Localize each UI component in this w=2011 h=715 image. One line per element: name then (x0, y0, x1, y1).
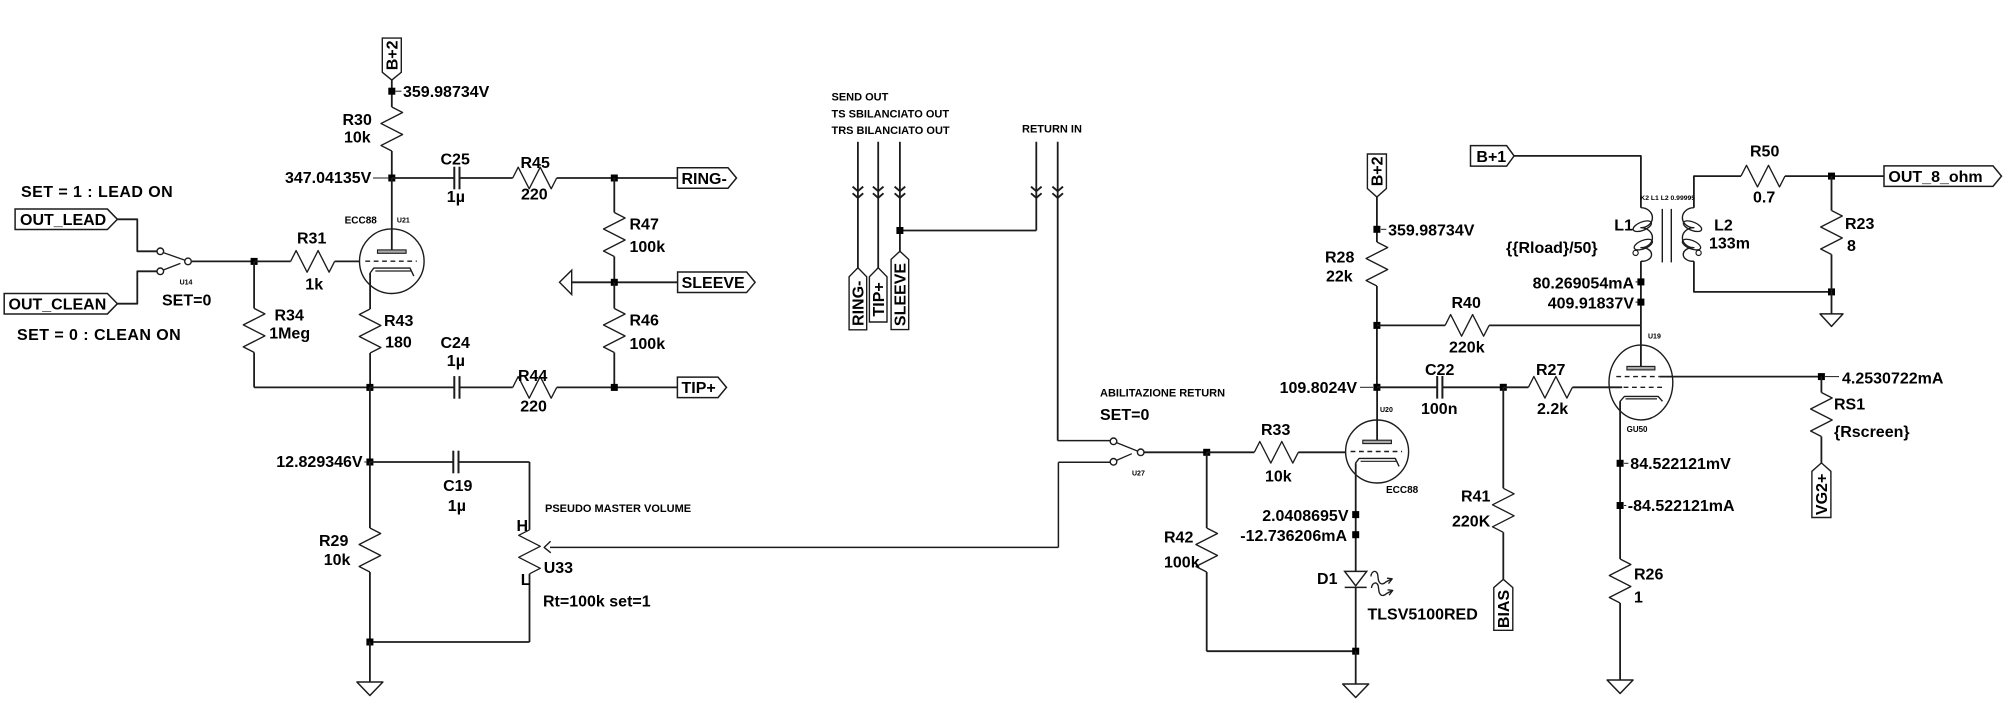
svg-text:220: 220 (521, 187, 548, 204)
svg-text:R43: R43 (384, 313, 413, 330)
svg-text:2.0408695V: 2.0408695V (1262, 508, 1349, 525)
svg-text:SET = 0 : CLEAN ON: SET = 0 : CLEAN ON (17, 327, 181, 344)
svg-text:R27: R27 (1536, 362, 1565, 379)
svg-text:VG2+: VG2+ (1814, 474, 1831, 515)
svg-text:100k: 100k (1164, 555, 1200, 572)
svg-text:R33: R33 (1261, 422, 1290, 439)
svg-text:TIP+: TIP+ (871, 282, 888, 316)
svg-text:BIAS: BIAS (1496, 590, 1513, 629)
svg-text:C19: C19 (443, 478, 472, 495)
svg-text:U19: U19 (1648, 334, 1661, 341)
svg-text:347.04135V: 347.04135V (285, 170, 372, 187)
svg-text:B+2: B+2 (1370, 156, 1387, 186)
svg-text:220K: 220K (1452, 514, 1491, 531)
svg-text:R40: R40 (1452, 295, 1481, 312)
svg-text:U21: U21 (397, 218, 410, 225)
svg-text:359.98734V: 359.98734V (403, 84, 490, 101)
svg-text:409.91837V: 409.91837V (1548, 296, 1635, 313)
svg-text:8: 8 (1847, 238, 1856, 255)
svg-text:H: H (517, 518, 529, 535)
svg-text:359.98734V: 359.98734V (1388, 222, 1475, 239)
svg-text:C22: C22 (1425, 362, 1454, 379)
svg-text:TLSV5100RED: TLSV5100RED (1368, 607, 1478, 624)
svg-text:U33: U33 (544, 560, 573, 577)
svg-text:1µ: 1µ (447, 353, 465, 370)
svg-text:TS SBILANCIATO OUT: TS SBILANCIATO OUT (832, 108, 950, 120)
svg-text:180: 180 (385, 335, 412, 352)
svg-text:U14: U14 (180, 280, 193, 287)
svg-text:10k: 10k (324, 552, 351, 569)
svg-text:84.522121mV: 84.522121mV (1630, 456, 1731, 473)
svg-text:R42: R42 (1164, 530, 1193, 547)
svg-text:RS1: RS1 (1834, 397, 1865, 414)
svg-text:PSEUDO MASTER VOLUME: PSEUDO MASTER VOLUME (545, 503, 691, 515)
svg-text:100k: 100k (630, 239, 666, 256)
svg-text:TRS BILANCIATO OUT: TRS BILANCIATO OUT (832, 125, 950, 137)
svg-text:R46: R46 (630, 313, 659, 330)
svg-text:C25: C25 (441, 152, 470, 169)
svg-text:R31: R31 (297, 231, 326, 248)
svg-text:SLEEVE: SLEEVE (682, 275, 745, 292)
svg-text:ABILITAZIONE RETURN: ABILITAZIONE RETURN (1100, 388, 1225, 400)
svg-text:R45: R45 (521, 155, 550, 172)
svg-text:L1: L1 (1614, 218, 1633, 235)
svg-text:C24: C24 (441, 335, 470, 352)
svg-text:RING-: RING- (682, 171, 727, 188)
svg-text:220k: 220k (1449, 340, 1485, 357)
svg-text:R28: R28 (1325, 250, 1354, 267)
svg-text:OUT_CLEAN: OUT_CLEAN (9, 297, 107, 314)
svg-text:OUT_8_ohm: OUT_8_ohm (1888, 169, 1982, 186)
svg-text:100n: 100n (1421, 401, 1457, 418)
svg-text:R30: R30 (343, 112, 372, 129)
svg-text:-12.736206mA: -12.736206mA (1240, 528, 1347, 545)
svg-text:0.7: 0.7 (1753, 190, 1775, 207)
svg-text:RETURN IN: RETURN IN (1022, 124, 1082, 136)
svg-text:RING-: RING- (851, 281, 868, 326)
svg-text:R44: R44 (518, 368, 547, 385)
svg-text:100k: 100k (630, 336, 666, 353)
svg-text:109.8024V: 109.8024V (1280, 380, 1358, 397)
svg-text:U27: U27 (1132, 471, 1145, 478)
svg-text:ECC88: ECC88 (1386, 485, 1419, 496)
svg-text:L2: L2 (1714, 218, 1733, 235)
svg-text:{{Rload}/50}: {{Rload}/50} (1506, 240, 1598, 257)
svg-text:1: 1 (1634, 590, 1643, 607)
svg-text:D1: D1 (1317, 571, 1338, 588)
svg-text:U20: U20 (1380, 407, 1393, 414)
svg-text:R26: R26 (1634, 567, 1663, 584)
svg-text:SLEEVE: SLEEVE (893, 263, 910, 326)
svg-text:80.269054mA: 80.269054mA (1533, 276, 1635, 293)
svg-text:-84.522121mA: -84.522121mA (1628, 498, 1735, 515)
svg-text:R47: R47 (630, 217, 659, 234)
svg-text:10k: 10k (1265, 468, 1292, 485)
svg-text:2.2k: 2.2k (1537, 401, 1568, 418)
svg-text:12.829346V: 12.829346V (276, 454, 363, 471)
svg-text:GU50: GU50 (1627, 425, 1648, 434)
svg-text:R50: R50 (1750, 144, 1779, 161)
svg-text:R41: R41 (1461, 489, 1490, 506)
svg-text:K2 L1 L2 0.99995: K2 L1 L2 0.99995 (1640, 195, 1695, 202)
svg-text:1Meg: 1Meg (269, 325, 310, 342)
svg-text:220: 220 (520, 399, 547, 416)
svg-text:{Rscreen}: {Rscreen} (1834, 424, 1910, 441)
svg-text:22k: 22k (1326, 269, 1353, 286)
svg-text:Rt=100k set=1: Rt=100k set=1 (543, 594, 651, 611)
svg-text:B+1: B+1 (1476, 149, 1506, 166)
svg-text:R29: R29 (319, 533, 348, 550)
svg-text:4.2530722mA: 4.2530722mA (1842, 370, 1944, 387)
svg-text:SET = 1 : LEAD ON: SET = 1 : LEAD ON (21, 184, 173, 201)
svg-text:1µ: 1µ (448, 498, 466, 515)
svg-text:SET=0: SET=0 (162, 293, 211, 310)
svg-text:OUT_LEAD: OUT_LEAD (20, 212, 106, 229)
svg-text:ECC88: ECC88 (345, 216, 378, 227)
svg-text:1k: 1k (305, 277, 323, 294)
svg-text:TIP+: TIP+ (682, 380, 716, 397)
svg-text:R23: R23 (1845, 216, 1874, 233)
svg-text:1µ: 1µ (447, 189, 465, 206)
svg-text:SEND OUT: SEND OUT (832, 92, 889, 104)
svg-text:R34: R34 (275, 307, 304, 324)
svg-text:SET=0: SET=0 (1100, 407, 1149, 424)
svg-text:L: L (521, 572, 531, 589)
svg-text:B+2: B+2 (385, 40, 402, 70)
svg-text:10k: 10k (344, 130, 371, 147)
svg-text:133m: 133m (1709, 236, 1750, 253)
